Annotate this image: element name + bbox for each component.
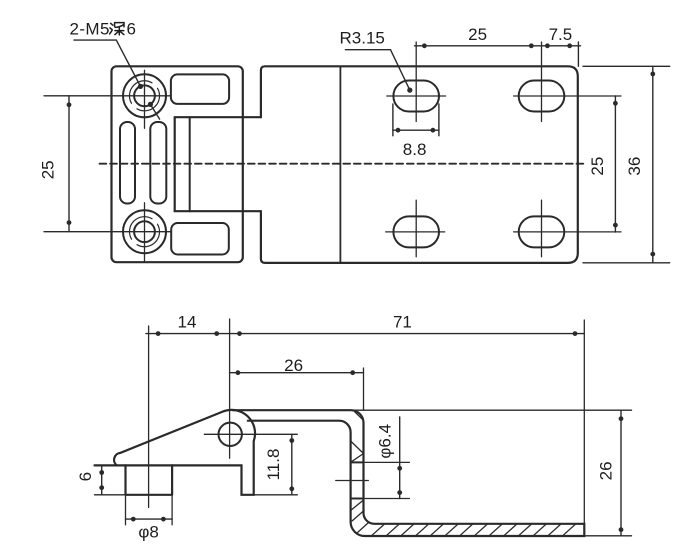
mounting plate outline (right block, notched left edge) [261,66,578,263]
dots of phi-8 dimension [131,517,166,522]
dots of right 25 dimension [613,101,618,228]
dimension 6 (left) [95,465,126,494]
hand-drawn CJK glyph shen (deep) [110,23,124,35]
top-left obround crosshair [387,42,446,122]
dots of 25 / 7.5 dimension [422,43,572,48]
knuckle curl edge line [189,117,191,211]
top M5 thread arc [129,81,159,111]
dots of 26 dimension [236,370,356,375]
leaf side profile [95,410,256,495]
dots of right 26 dimension [619,416,624,532]
dimension 26 (pin to wall) [230,372,364,374]
dots of 8.8 dimension [396,128,436,133]
top-right slot in leaf [171,74,229,104]
wall right surface extension up (26 top) [363,368,365,410]
bottom M5 tapped hole outer circle [123,210,166,253]
section hatching of bottom flange [372,525,575,536]
bottom M5 crosshair [44,203,171,262]
svg-text:26: 26 [597,461,616,480]
svg-text:25: 25 [588,157,607,176]
bottom M5 tapped hole inner circle [134,221,155,242]
svg-text:25: 25 [38,160,57,179]
strap, bent wall and bottom flange outline [233,410,584,536]
phi-6.4 hole edges in wall [351,462,364,498]
svg-text:25: 25 [468,25,487,44]
leader dot of R3.15 [407,88,412,93]
dots of 36 dimension [650,72,655,257]
svg-text:26: 26 [284,356,303,375]
horizontal centerline (dashed) [100,163,587,165]
svg-text:2-M5: 2-M5 [70,20,110,39]
svg-text:8.8: 8.8 [403,140,427,159]
hinge pin hole [219,423,242,446]
svg-text:6: 6 [127,20,136,39]
svg-text:7.5: 7.5 [549,25,573,44]
dimension phi-8 [126,518,173,520]
dimension line 14 / 71 (shared) [146,333,584,335]
top M5 tapped hole inner circle [134,85,155,106]
bottom M5 thread arc [129,217,159,247]
svg-text:71: 71 [393,313,412,332]
phi-6.4 hole edge extension lines [364,462,410,498]
dots of 14 / 71 dimension [156,331,578,336]
leader of 2-M5 depth 6 callout [74,40,160,119]
dimension 36 (far right) [583,66,670,262]
bottom-right obround hole [519,216,565,247]
dimension 11.8 [291,434,293,495]
dimension phi-6.4 [399,417,401,499]
strap top extension to the right (26 right) [351,409,632,411]
top M5 tapped hole outer circle [123,74,166,117]
svg-text:φ6.4: φ6.4 [375,424,394,459]
dots of 11.8 dimension [289,438,294,491]
section hatching of wall below hole [351,500,368,533]
hinge knuckle tongue (protrudes into leaf) [175,117,261,211]
dimension 26 (right, channel height) [620,410,622,536]
section hatching of wall above hole [351,412,364,462]
plate bend line [339,66,341,263]
pin hole horizontal crosshair / 11.8 extension [204,433,297,435]
top-left obround hole [393,81,439,112]
svg-text:6: 6 [76,472,95,481]
phi-6.4 hole centerline tick [336,480,369,482]
leader dots of M5 callout [138,84,153,107]
flange bottom extension to the right [584,535,631,537]
bottom-right slot in leaf [171,223,229,255]
svg-text:11.8: 11.8 [264,449,283,481]
leader of R3.15 callout [345,50,409,90]
pin vertical centerline / 14-71 extension [229,319,231,458]
top-right obround hole [519,81,565,112]
hinge leaf outline (left block) [112,66,243,262]
bottom-left obround hole [393,216,439,247]
boss (phi-8 stud) [126,465,173,494]
right edge extension line (71 / flange end) [583,320,585,524]
dimension 25 (right, between obround rows) [614,96,616,232]
dimension 8.8 under top-left obround [393,104,439,136]
dots of left 25 dimension [67,102,72,225]
phi-8 extension lines [126,495,173,525]
bottom-right obround crosshair [514,200,621,257]
svg-text:R3.15: R3.15 [340,29,385,48]
dimension line 25 / 7.5 (top) [415,42,581,66]
dimension 25 (left, between M5 holes) [68,96,70,232]
top-right obround crosshair [514,42,621,122]
step bottom extension right (11.8) [254,494,298,496]
svg-text:φ8: φ8 [138,523,158,542]
dots of 6 dimension [99,470,104,490]
dots of phi-6.4 dimension [397,466,402,495]
boss centerline / 14 extension [148,326,150,508]
svg-text:14: 14 [178,313,197,332]
bottom-left obround crosshair [386,200,445,257]
left vertical slot in leaf [120,122,135,204]
right vertical slot in leaf [150,122,166,204]
svg-text:36: 36 [625,157,644,176]
top M5 crosshair [44,70,171,128]
